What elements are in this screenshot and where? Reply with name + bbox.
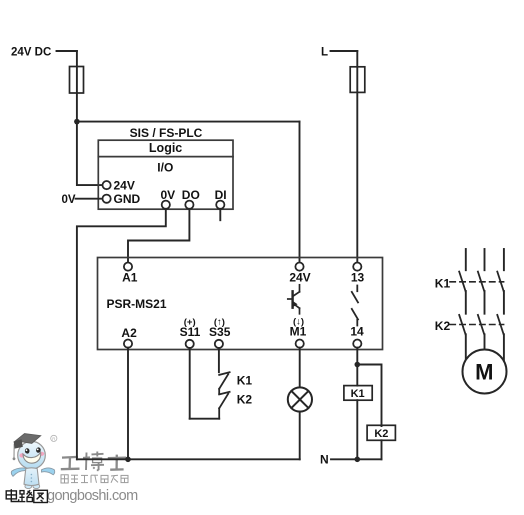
- node junction 24V bus: [74, 119, 80, 125]
- mascot left eye: [25, 448, 30, 454]
- watermark text SHI (士): [108, 455, 126, 470]
- node junction 14/K2 branch: [355, 362, 361, 368]
- wire A2 down to bottom rail: [127, 348, 129, 460]
- watermark tagline (7 small pseudo-glyphs): [61, 475, 128, 483]
- svg-text:S35: S35: [209, 325, 231, 339]
- lamp H1: [288, 387, 312, 411]
- motor feeder line 2 stub: [484, 249, 486, 270]
- motor feeder line 1 stub: [465, 249, 467, 270]
- mid feeder verticals: [465, 291, 467, 314]
- relay coil K1: [344, 386, 372, 401]
- watermark LU (路) black: [19, 490, 32, 501]
- terminal SIS DI: [216, 201, 224, 209]
- motor M: [463, 350, 507, 394]
- relay coil K2: [367, 425, 395, 440]
- transistor output symbol inside PSR: [288, 285, 300, 314]
- PSR-MS21 box U2: [98, 258, 383, 350]
- mascot cap band: [14, 439, 23, 448]
- svg-text:M1: M1: [290, 325, 307, 339]
- svg-text:K1: K1: [435, 276, 451, 290]
- Logic separator line: [98, 156, 233, 158]
- mascot tassel: [13, 444, 15, 458]
- fuse F2: [350, 67, 365, 93]
- mascot body: [24, 468, 39, 486]
- wire L feed horizontal: [331, 50, 358, 52]
- svg-text:0V: 0V: [62, 194, 76, 206]
- watermark DIAN (电) black: [6, 489, 19, 501]
- wire 24V down to SIS 24V terminal: [77, 122, 103, 186]
- SIS/FS-PLC box U1: [98, 140, 233, 209]
- wire S11 down: [189, 348, 191, 419]
- fuse F1: [70, 67, 84, 94]
- terminal SIS 24V: [103, 181, 111, 189]
- contact 13-14 inside PSR (two NO contacts in series): [352, 286, 358, 326]
- terminal PSR S35: [215, 340, 223, 348]
- svg-text:K1: K1: [237, 373, 253, 387]
- svg-text:A2: A2: [121, 326, 137, 340]
- mascot smile: [23, 452, 41, 463]
- wire feedback loop bottom: [190, 418, 220, 420]
- watermark TU (图) black: [34, 490, 48, 502]
- wire N rail: [331, 458, 382, 460]
- terminal SIS DO: [185, 201, 193, 209]
- svg-text:A1: A1: [122, 271, 138, 285]
- terminal PSR 24V: [295, 263, 303, 271]
- terminal SIS GND: [103, 195, 111, 203]
- svg-text:Logic: Logic: [149, 141, 182, 155]
- wire 0V label stub: [76, 198, 103, 200]
- svg-text:K2: K2: [435, 319, 451, 333]
- K1 mechanical link dashed: [450, 281, 504, 283]
- svg-text:DO: DO: [182, 188, 200, 202]
- registered mark: [51, 435, 57, 441]
- wire lamp down to bottom rail: [299, 412, 301, 460]
- svg-text:I/O: I/O: [157, 161, 173, 175]
- svg-text:24V DC: 24V DC: [11, 47, 51, 59]
- svg-text:24V: 24V: [114, 178, 135, 192]
- lower feeder verticals into motor: [465, 334, 467, 362]
- svg-text:K1: K1: [351, 388, 365, 400]
- svg-text:gongboshi.com: gongboshi.com: [47, 488, 138, 504]
- mascot left arm: [11, 468, 26, 476]
- svg-text:S11: S11: [180, 325, 201, 339]
- mascot cap board: [16, 434, 41, 444]
- terminal PSR A1: [124, 263, 132, 271]
- svg-text:L: L: [321, 47, 328, 59]
- motor feeder line 3 stub: [503, 249, 505, 270]
- wire SIS DO to PSR A1: [128, 209, 189, 263]
- wire M1 down to lamp: [299, 348, 301, 388]
- terminal PSR 13: [353, 263, 361, 271]
- watermark text BO (博): [83, 452, 104, 471]
- wire L vertical through fuse to PSR 13: [356, 51, 358, 262]
- wire K2 coil to N rail: [381, 440, 383, 459]
- wire 24VDC vertical through fuse: [76, 51, 78, 122]
- svg-text:13: 13: [351, 271, 365, 285]
- svg-text:K2: K2: [374, 428, 388, 440]
- mascot right eye: [36, 447, 41, 453]
- wire 24V bus horizontal to PSR A1/24V column: [77, 121, 300, 123]
- mascot head: [18, 441, 46, 469]
- svg-text:PSR-MS21: PSR-MS21: [107, 297, 167, 311]
- contact K1 (feedback): [219, 372, 229, 394]
- svg-text:N: N: [320, 452, 329, 466]
- contact K2 (feedback): [219, 392, 229, 419]
- svg-text:GND: GND: [114, 192, 141, 206]
- terminal PSR M1: [296, 340, 304, 348]
- wire 24V down to PSR 24V terminal: [299, 122, 301, 263]
- mascot left cheek: [19, 453, 25, 457]
- wire 14 down: [356, 348, 358, 386]
- wire bottom 0V rail: [77, 458, 300, 460]
- terminal PSR 14: [353, 340, 361, 348]
- svg-text:DI: DI: [215, 188, 227, 202]
- contactor K1 main contacts (3 poles): [459, 272, 503, 291]
- wire K1 coil to N rail: [356, 400, 358, 459]
- mascot right cheek: [39, 452, 44, 456]
- wire branch to K2 coil: [357, 365, 381, 427]
- svg-text:SIS / FS-PLC: SIS / FS-PLC: [130, 126, 203, 140]
- node junction A2/bottom rail: [125, 457, 131, 463]
- svg-text:14: 14: [350, 325, 364, 339]
- mascot right arm: [42, 468, 55, 475]
- wire 24VDC feed horizontal: [57, 50, 77, 52]
- wire SIS 0V return (down, left, down to bottom rail): [77, 209, 166, 459]
- mascot buttons: [31, 474, 33, 476]
- svg-text:M: M: [475, 360, 493, 385]
- svg-text:0V: 0V: [160, 188, 175, 202]
- wire SIS DI stub: [219, 209, 221, 220]
- terminal SIS 0V: [162, 201, 170, 209]
- watermark text GONG (工): [61, 457, 80, 469]
- K2 mechanical link dashed: [450, 324, 504, 326]
- wire S35 down to K1 contact: [218, 348, 220, 372]
- svg-text:24V: 24V: [289, 271, 310, 285]
- node junction N rail: [355, 457, 361, 463]
- terminal PSR A2: [124, 340, 132, 348]
- mascot feet: [25, 484, 32, 489]
- contactor K2 main contacts (3 poles): [459, 315, 503, 334]
- terminal PSR S11: [186, 340, 194, 348]
- svg-text:K2: K2: [237, 392, 253, 406]
